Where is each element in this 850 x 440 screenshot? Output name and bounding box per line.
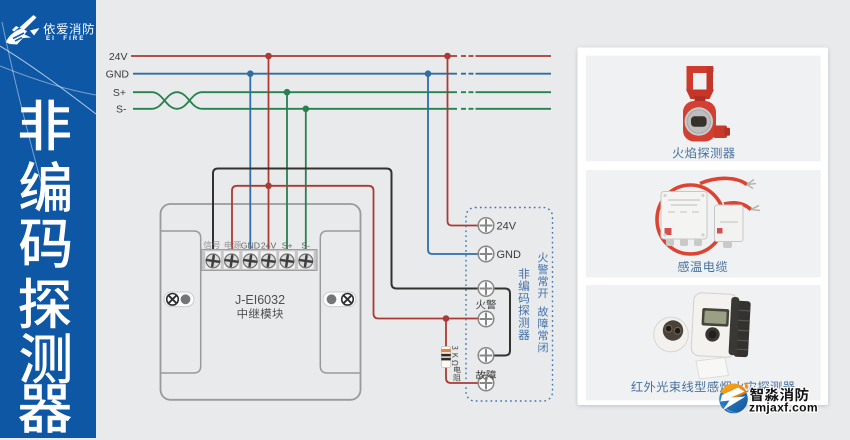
svg-text:S+: S+ [282,240,293,250]
svg-text:GND: GND [497,249,522,261]
svg-text:S+: S+ [113,87,126,99]
svg-text:EI FIRE: EI FIRE [46,35,85,42]
svg-text:24V: 24V [497,220,517,232]
svg-text:S-: S- [116,104,127,116]
svg-text:24V: 24V [109,51,128,63]
svg-text:zmjaxf.com: zmjaxf.com [749,400,818,414]
svg-text:S-: S- [301,240,310,250]
svg-text:J-EI6032: J-EI6032 [235,293,285,307]
svg-text:GND: GND [241,240,260,250]
svg-text:GND: GND [106,69,130,81]
svg-text:24V: 24V [261,240,277,250]
